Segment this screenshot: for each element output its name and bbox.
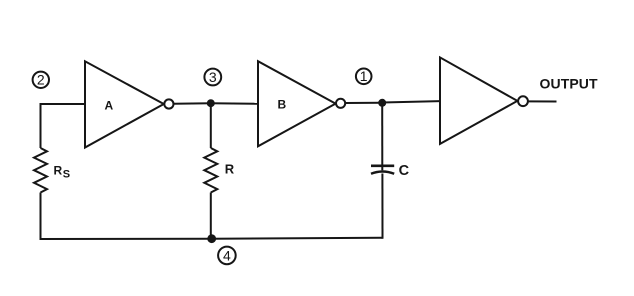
- wire: [174, 102, 212, 104]
- inverter B: [258, 61, 345, 146]
- capacitor C: [371, 163, 410, 179]
- wire: [212, 237, 383, 240]
- svg-text:R: R: [54, 164, 63, 178]
- wire: [382, 101, 440, 102]
- wire: [40, 103, 42, 148]
- wire: [381, 103, 383, 166]
- svg-text:R: R: [225, 162, 235, 177]
- wire: [345, 102, 382, 104]
- svg-text:3: 3: [209, 69, 217, 85]
- wire: [41, 103, 86, 105]
- wire: [211, 102, 258, 105]
- svg-text:C: C: [399, 163, 410, 179]
- wire: [40, 193, 42, 241]
- node 3: [204, 69, 221, 108]
- svg-text:A: A: [105, 99, 114, 113]
- svg-text:2: 2: [37, 72, 45, 88]
- wire: [40, 238, 212, 240]
- svg-text:OUTPUT: OUTPUT: [540, 76, 598, 92]
- node 1: [356, 68, 372, 84]
- inverter U3: [440, 57, 528, 143]
- wire: [528, 100, 557, 102]
- wire: [210, 103, 212, 148]
- junction node 1 dot: [378, 99, 386, 107]
- inverter A: [85, 61, 173, 147]
- wire: [381, 174, 383, 239]
- resistor RS: [34, 148, 70, 193]
- svg-text:B: B: [278, 98, 287, 112]
- svg-text:1: 1: [360, 68, 368, 84]
- node 2: [33, 72, 49, 88]
- resistor R: [204, 148, 235, 193]
- svg-text:4: 4: [223, 247, 231, 263]
- node 4: [207, 234, 235, 264]
- wire: [210, 193, 212, 239]
- svg-text:S: S: [63, 169, 70, 181]
